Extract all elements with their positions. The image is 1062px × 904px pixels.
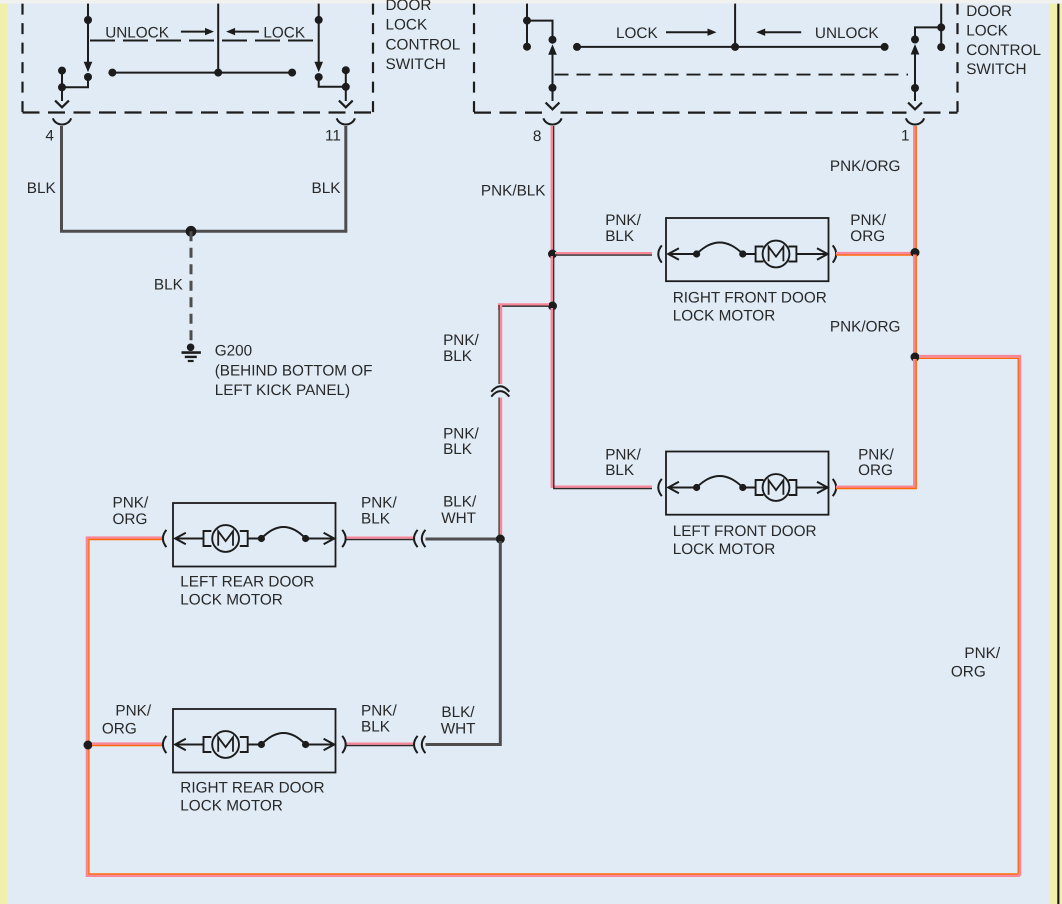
svg-text:8: 8	[533, 128, 542, 145]
svg-text:UNLOCK: UNLOCK	[105, 24, 170, 41]
SW2 node on pin8 leg	[549, 84, 557, 92]
SW1 chevron arrow to pin 4	[55, 101, 69, 108]
SW2 node top left	[523, 17, 531, 25]
wire crossover hump	[491, 386, 509, 392]
wire PNK/ORG to right rear motor	[92, 742, 162, 745]
svg-text:LOCK: LOCK	[263, 24, 305, 41]
switch SW1 dashed border right edge	[372, 4, 374, 113]
wire PNK/BLK down left column upper	[498, 305, 500, 384]
svg-text:PNK/: PNK/	[850, 212, 886, 229]
SW1 wire pin4 leg down	[61, 87, 63, 101]
SW2 contact node pin1 side	[911, 36, 919, 44]
svg-text:UNLOCK: UNLOCK	[815, 25, 880, 42]
svg-text:LEFT KICK PANEL): LEFT KICK PANEL)	[215, 382, 350, 399]
svg-text:(BEHIND BOTTOM OF: (BEHIND BOTTOM OF	[215, 363, 373, 380]
SW1 arrow down on pin4-side wire	[84, 62, 93, 73]
right black border line	[1057, 4, 1059, 904]
SW2 wire pin1 leg down	[914, 53, 916, 101]
svg-text:ORG: ORG	[102, 721, 137, 738]
svg-text:DOOR: DOOR	[386, 0, 432, 14]
SW1 wire pin11 leg down	[345, 87, 347, 101]
wire PNK/BLK left rear motor out	[347, 537, 414, 539]
SW1 center wire from top	[217, 4, 219, 73]
SW2 bus center node	[731, 43, 739, 51]
node BLK junction	[186, 226, 197, 237]
SW1 lock arrow left	[226, 28, 235, 35]
connector inline left rear	[414, 530, 418, 547]
node C pin1 branch right front motor	[911, 248, 920, 257]
SW2 lock arrow right	[666, 31, 710, 33]
wire PNK/BLK jog left	[499, 304, 549, 310]
node A pin8 branch to right front motor	[548, 250, 557, 259]
svg-text:PNK/: PNK/	[605, 446, 641, 463]
wire BLK joining bus	[60, 230, 347, 233]
SW2 common bus wire	[577, 46, 885, 48]
top white strip	[0, 0, 1062, 4]
switch SW2 mechanical linkage dashed line	[555, 74, 909, 76]
SW1 node on pin4-side wire	[84, 16, 92, 24]
SW1 wire terminal stub left	[61, 71, 63, 88]
svg-text:4: 4	[45, 127, 54, 144]
svg-text:CONTROL: CONTROL	[386, 36, 461, 53]
wire BLK dashed to ground	[190, 231, 193, 344]
motor M3 LEFT REAR DOOR LOCK MOTOR	[173, 503, 336, 567]
ground G200 symbol	[187, 344, 195, 352]
left yellow margin strip	[0, 0, 7, 904]
wire PNK/BLK pin8 down second	[551, 256, 553, 306]
svg-text:BLK: BLK	[605, 228, 635, 245]
SW2 wire from top right	[940, 4, 942, 48]
SW2 contact node pin8 side	[549, 36, 557, 44]
svg-text:ORG: ORG	[858, 462, 893, 479]
svg-text:PNK/: PNK/	[115, 703, 151, 720]
wire BLK/WHT left rear to junction	[426, 538, 498, 541]
SW1 node on pin11-side wire	[315, 16, 323, 24]
wire PNK/BLK pin8 down	[551, 126, 553, 254]
SW2 node top right	[937, 23, 945, 31]
node F BLK/WHT junction	[496, 535, 505, 544]
svg-text:PNK/ORG: PNK/ORG	[830, 158, 901, 175]
switch SW2 dashed border right edge	[956, 4, 958, 113]
SW2 unlock arrow left	[756, 29, 765, 36]
svg-text:G200: G200	[215, 342, 252, 359]
wire PNK/ORG branch right and down right column	[919, 356, 1020, 875]
switch SW1 dashed border left edge	[21, 4, 23, 113]
right yellow margin strip	[1049, 0, 1062, 904]
SW1 arrow down on pin11-side wire	[314, 62, 323, 73]
svg-text:PNK/: PNK/	[443, 425, 479, 442]
SW2 node on pin1 leg	[911, 84, 919, 92]
SW1 common bus wire	[112, 72, 292, 74]
SW2 center wire from top	[734, 4, 736, 47]
SW1 terminal contact left	[58, 67, 66, 75]
SW1 node pin4 leg	[58, 83, 66, 91]
wire PNK/BLK right rear motor out	[347, 743, 414, 745]
svg-text:BLK: BLK	[154, 277, 184, 294]
SW1 wire terminal stub right	[345, 70, 347, 87]
wire PNK/BLK pin8 down to left front motor	[552, 308, 652, 487]
svg-text:11: 11	[325, 127, 341, 144]
wire BLK pin4 down	[60, 126, 63, 231]
svg-text:WHT: WHT	[441, 510, 476, 527]
svg-text:RIGHT REAR DOOR: RIGHT REAR DOOR	[180, 780, 324, 797]
SW1 terminal contact right	[342, 66, 350, 74]
svg-text:BLK: BLK	[312, 180, 342, 197]
svg-text:PNK/BLK: PNK/BLK	[481, 182, 546, 199]
svg-text:BLK: BLK	[443, 348, 473, 365]
svg-text:LOCK MOTOR: LOCK MOTOR	[180, 591, 283, 608]
wire PNK/BLK to right front motor	[555, 252, 652, 254]
svg-text:SWITCH: SWITCH	[386, 56, 446, 73]
svg-text:BLK/: BLK/	[443, 494, 477, 511]
SW1 contact node pin11 side	[315, 73, 323, 81]
SW2 bus end node left	[573, 43, 581, 51]
svg-text:PNK/: PNK/	[964, 645, 1000, 662]
svg-text:LOCK MOTOR: LOCK MOTOR	[673, 541, 776, 558]
svg-text:PNK/: PNK/	[113, 494, 149, 511]
svg-text:LOCK MOTOR: LOCK MOTOR	[673, 307, 776, 324]
connector pin 8	[543, 118, 561, 124]
svg-text:BLK/: BLK/	[441, 704, 475, 721]
SW1 wire contact to pin11 leg	[319, 77, 346, 87]
SW2 arrow up on pin1 leg	[911, 44, 920, 55]
svg-text:1: 1	[901, 127, 910, 144]
wire BLK/WHT down and left	[426, 541, 501, 745]
switch SW2 dashed border bottom edge	[474, 111, 545, 113]
svg-text:PNK/: PNK/	[858, 446, 894, 463]
svg-text:RIGHT FRONT DOOR: RIGHT FRONT DOOR	[673, 290, 827, 307]
svg-text:SWITCH: SWITCH	[966, 61, 1026, 78]
SW1 wire from top at pin11 side	[318, 4, 320, 62]
svg-text:BLK: BLK	[605, 462, 635, 479]
SW2 wire bend to pin8 leg	[527, 21, 553, 40]
SW2 terminal contact right	[937, 43, 945, 51]
svg-text:BLK: BLK	[361, 719, 391, 736]
SW1 wire from top at pin4 side	[87, 4, 89, 62]
switch SW1 mechanical linkage dashed line	[90, 40, 319, 42]
wire BLK pin11 down	[344, 126, 347, 231]
svg-text:BLK: BLK	[443, 441, 473, 458]
wire PNK/ORG pin1 down second	[913, 255, 916, 358]
node B pnk/blk split	[548, 302, 557, 311]
wire PNK/ORG pin1 down	[913, 126, 916, 253]
wire PNK/ORG pin1 down to left front motor	[836, 359, 914, 487]
SW1 chevron arrow to pin 11	[339, 101, 353, 108]
SW1 unlock arrow right	[181, 31, 207, 33]
svg-text:LOCK: LOCK	[386, 17, 428, 34]
SW1 contact node pin4 side	[84, 73, 92, 81]
SW2 wire pin8 leg down	[552, 53, 554, 101]
svg-text:PNK/: PNK/	[605, 212, 641, 229]
svg-text:LOCK: LOCK	[616, 25, 658, 42]
svg-text:LEFT REAR DOOR: LEFT REAR DOOR	[180, 574, 314, 591]
node D pin1 branch to right column	[911, 353, 920, 362]
SW2 wire from top left	[526, 4, 528, 47]
wire PNK/ORG right front motor to pin1 wire	[836, 252, 912, 255]
svg-text:BLK: BLK	[361, 511, 391, 528]
SW1 node pin11 leg	[342, 83, 350, 91]
connector pin 1	[906, 118, 924, 124]
svg-text:CONTROL: CONTROL	[966, 42, 1041, 59]
connector inline right rear	[414, 736, 418, 753]
svg-text:PNK/ORG: PNK/ORG	[830, 319, 901, 336]
svg-text:WHT: WHT	[441, 721, 476, 738]
svg-text:PNK/: PNK/	[361, 703, 397, 720]
SW2 wire bend to pin1 leg	[915, 27, 941, 39]
motor M2 LEFT FRONT DOOR LOCK MOTOR	[666, 452, 829, 515]
SW1 bus center node	[214, 69, 222, 77]
SW2 chevron arrow to pin 8	[546, 103, 560, 110]
wire PNK/ORG bottom bus and left column	[87, 538, 1020, 876]
SW2 bus end node right	[881, 43, 889, 51]
svg-text:ORG: ORG	[850, 228, 885, 245]
SW1 wire contact to pin4 leg	[62, 77, 88, 87]
svg-text:LOCK MOTOR: LOCK MOTOR	[180, 797, 283, 814]
svg-text:BLK: BLK	[27, 180, 57, 197]
SW2 chevron arrow to pin 1	[908, 103, 922, 110]
svg-text:LEFT FRONT DOOR: LEFT FRONT DOOR	[673, 523, 817, 540]
svg-text:LOCK: LOCK	[966, 23, 1008, 40]
svg-text:ORG: ORG	[951, 663, 986, 680]
switch SW1 dashed border bottom edge	[23, 111, 374, 113]
switch SW2 dashed border left edge	[473, 4, 475, 113]
SW1 bus end node left	[108, 69, 116, 77]
connector pin 4	[53, 118, 71, 124]
motor M4 RIGHT REAR DOOR LOCK MOTOR	[173, 709, 336, 773]
SW2 arrow up on pin8 leg	[548, 44, 557, 55]
svg-text:ORG: ORG	[113, 511, 148, 528]
motor M1 RIGHT FRONT DOOR LOCK MOTOR	[666, 218, 829, 281]
svg-text:PNK/: PNK/	[443, 332, 479, 349]
connector pin 11	[337, 118, 355, 124]
wire PNK/BLK down left column lower	[498, 398, 500, 538]
SW1 bus end node right	[288, 69, 296, 77]
svg-text:DOOR: DOOR	[966, 3, 1012, 20]
svg-text:PNK/: PNK/	[361, 494, 397, 511]
node E left column branch to right rear motor	[84, 741, 93, 750]
SW2 terminal contact left	[523, 43, 531, 51]
